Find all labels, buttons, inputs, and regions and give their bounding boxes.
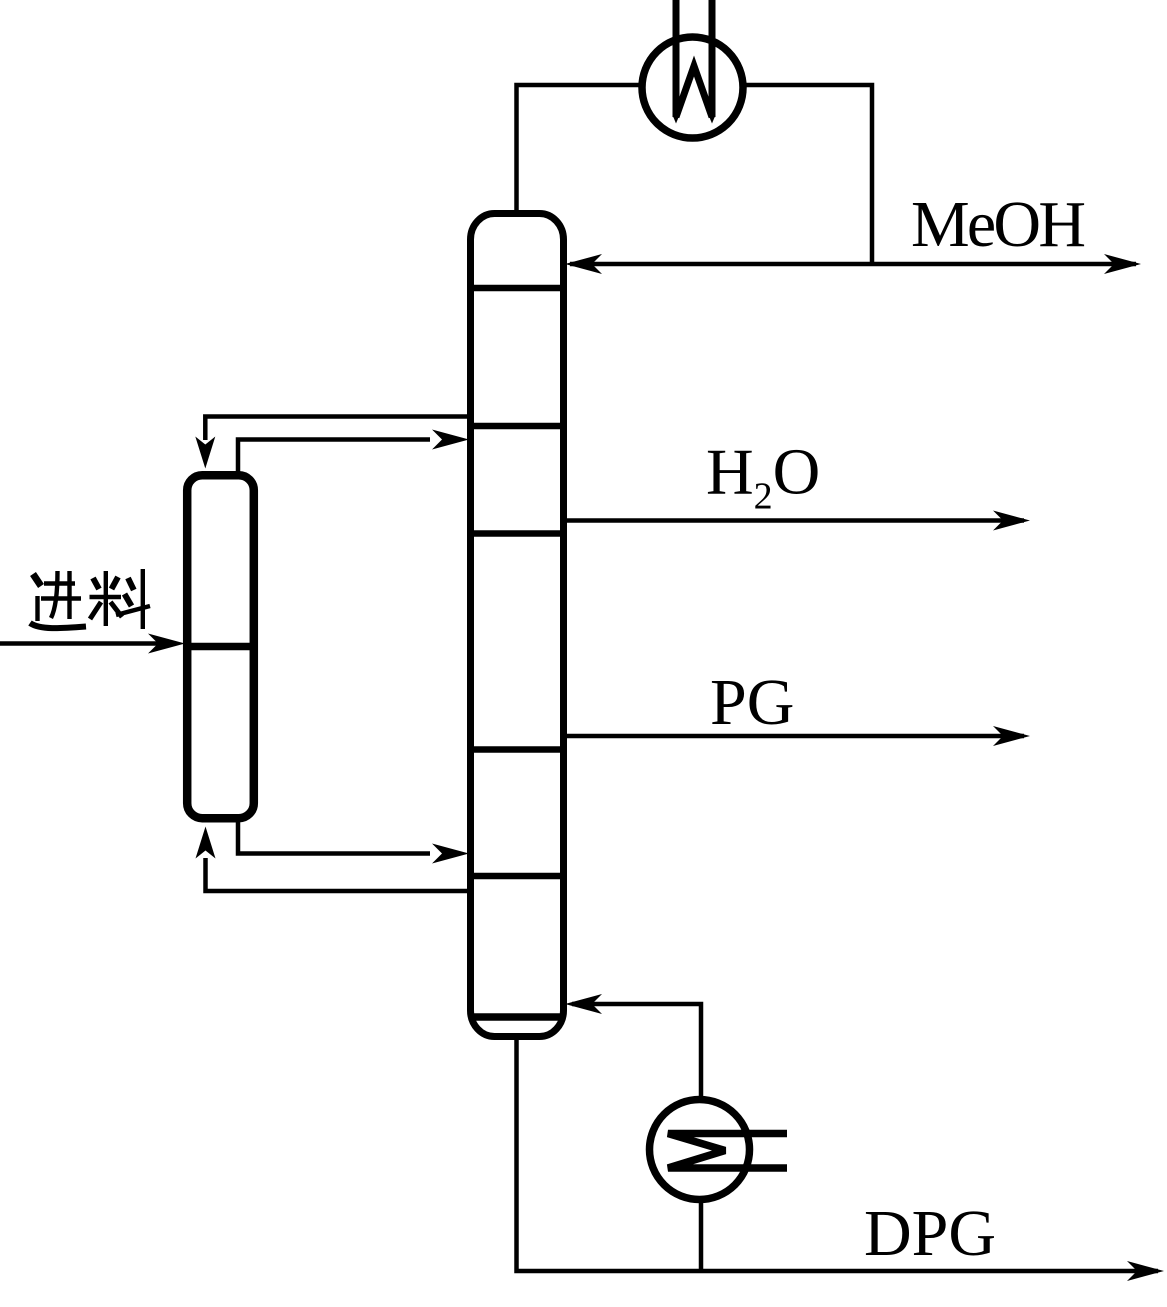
C1 tray divider 5	[469, 873, 565, 880]
arrowhead vapor into C1 upper	[432, 430, 469, 450]
arrowhead H2O out	[993, 511, 1030, 531]
wire: condenser outlet to reflux drum line	[745, 85, 872, 264]
main column C1 shell	[471, 214, 564, 1037]
wire: C1 liquid to C2 top	[205, 417, 467, 441]
svg-text:DPG: DPG	[864, 1197, 996, 1270]
arrowhead vapor into C1 bottom	[565, 994, 602, 1014]
arrowhead DPG out	[1127, 1261, 1164, 1281]
side column C2 shell	[187, 475, 254, 818]
C2 tray divider	[185, 643, 256, 651]
arrowhead feed into C2	[148, 634, 185, 654]
wire: C2 top vapor to C1	[238, 440, 430, 478]
wire: MeOH distillate line	[570, 262, 1136, 267]
reboiler E2 heating element	[668, 1134, 787, 1169]
arrowhead reflux into C1	[565, 254, 602, 274]
arrowhead MeOH product out	[1104, 254, 1141, 274]
wire: reboiler bottom stub	[699, 1197, 704, 1271]
wire: C2 bottom liquid to C1	[238, 817, 430, 854]
C1 tray divider 6	[469, 1013, 565, 1021]
wire: feed line	[0, 641, 158, 646]
arrowhead vapor up into C2 bottom	[196, 827, 216, 859]
svg-text:MeOH: MeOH	[911, 188, 1086, 261]
C1 tray divider 3	[469, 530, 565, 537]
wire: H2O side draw	[567, 518, 1024, 523]
wire: C1 bottoms to DPG product	[517, 1037, 1159, 1271]
C1 tray divider 2	[469, 423, 565, 430]
svg-text:PG: PG	[710, 666, 794, 739]
wire: C1 lower liquid to C2 bottom	[206, 858, 468, 891]
arrowhead liquid down into C2 top	[195, 437, 215, 469]
arrowhead PG out	[993, 726, 1030, 746]
wire: reboiler vapor return to C1 bottom	[572, 1004, 701, 1102]
condenser E1 coolant W coil	[676, 0, 712, 117]
C1 tray divider 4	[469, 746, 565, 753]
condenser E1 circle	[642, 37, 743, 138]
arrowhead C2 bottoms into C1 lower	[432, 844, 469, 864]
reboiler E2 circle	[650, 1100, 750, 1200]
wire: PG side draw	[567, 734, 1024, 739]
label feed Chinese characters jin liao	[30, 569, 150, 629]
wire: C1 overhead vapor to condenser	[517, 85, 641, 212]
C1 tray divider 1	[469, 285, 565, 292]
